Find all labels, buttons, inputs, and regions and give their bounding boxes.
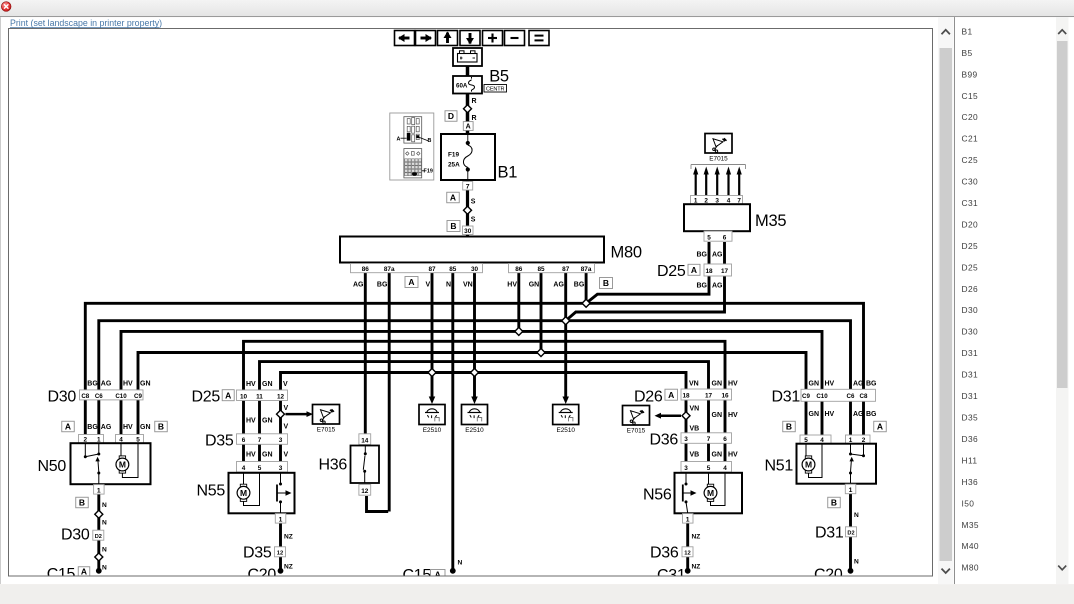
svg-text:V: V (284, 424, 289, 431)
svg-text:CENTR: CENTR (486, 87, 504, 93)
svg-text:A: A (668, 390, 674, 400)
svg-text:12: 12 (277, 551, 283, 557)
svg-text:V: V (284, 405, 289, 412)
svg-text:B99: B99 (962, 69, 978, 79)
svg-text:C8: C8 (860, 393, 868, 400)
svg-text:A: A (81, 567, 87, 577)
svg-text:25A: 25A (448, 162, 460, 169)
svg-text:HV: HV (123, 381, 133, 388)
svg-text:C25: C25 (962, 155, 979, 165)
svg-text:30: 30 (464, 228, 472, 235)
svg-text:3: 3 (684, 436, 688, 443)
svg-text:GN: GN (262, 452, 273, 459)
svg-text:VB: VB (690, 426, 700, 433)
svg-text:GN: GN (140, 424, 151, 431)
svg-text:30: 30 (471, 266, 479, 273)
svg-text:HV: HV (728, 412, 738, 419)
svg-text:B: B (786, 422, 792, 432)
svg-text:NZ: NZ (692, 564, 701, 571)
svg-text:AG: AG (353, 282, 364, 289)
svg-text:N50: N50 (38, 458, 67, 475)
svg-text:M80: M80 (962, 563, 980, 573)
svg-text:D35: D35 (205, 433, 234, 450)
svg-text:VN: VN (463, 282, 473, 289)
svg-text:BG: BG (87, 424, 98, 431)
svg-text:A: A (466, 124, 471, 131)
svg-text:B: B (79, 498, 85, 508)
svg-text:D30: D30 (48, 389, 77, 406)
svg-text:D26: D26 (962, 284, 979, 294)
svg-text:BG: BG (574, 282, 585, 289)
svg-text:VB: VB (690, 452, 700, 459)
svg-text:GN: GN (712, 452, 723, 459)
svg-text:18: 18 (705, 268, 713, 275)
svg-text:D36: D36 (650, 545, 679, 562)
svg-text:H11: H11 (962, 455, 978, 465)
svg-text:1: 1 (686, 516, 690, 523)
svg-text:A: A (225, 390, 231, 400)
svg-text:AG: AG (553, 282, 564, 289)
svg-text:VN: VN (690, 406, 700, 413)
svg-text:A: A (65, 422, 71, 432)
svg-text:4: 4 (242, 465, 246, 472)
svg-text:AG: AG (101, 381, 112, 388)
svg-text:5: 5 (258, 465, 262, 472)
svg-text:HV: HV (246, 452, 256, 459)
svg-text:D36: D36 (962, 434, 979, 444)
svg-text:N: N (446, 282, 451, 289)
svg-text:C15: C15 (962, 91, 979, 101)
svg-text:11: 11 (256, 393, 263, 400)
svg-text:BG: BG (377, 282, 388, 289)
svg-text:E7015: E7015 (317, 426, 336, 433)
svg-text:V: V (283, 381, 288, 388)
svg-text:HV: HV (728, 381, 738, 388)
svg-text:5: 5 (707, 235, 711, 242)
svg-text:C8: C8 (81, 393, 89, 400)
svg-text:D25: D25 (962, 241, 979, 251)
svg-text:C31: C31 (962, 198, 979, 208)
svg-text:C20: C20 (962, 112, 979, 122)
svg-text:M40: M40 (962, 541, 980, 551)
svg-text:HV: HV (123, 424, 133, 431)
svg-text:VN: VN (689, 381, 699, 388)
svg-text:N: N (458, 560, 463, 567)
svg-text:86: 86 (362, 266, 370, 273)
svg-text:HV: HV (825, 381, 835, 388)
svg-text:Print (set landscape in printe: Print (set landscape in printer property… (10, 18, 162, 28)
svg-text:E2510: E2510 (465, 427, 484, 434)
svg-text:GN: GN (140, 381, 151, 388)
svg-text:1: 1 (279, 516, 283, 523)
svg-text:5: 5 (707, 465, 711, 472)
svg-text:87a: 87a (581, 266, 592, 273)
svg-text:M35: M35 (962, 520, 980, 530)
svg-text:A: A (877, 422, 883, 432)
svg-text:C30: C30 (962, 177, 979, 187)
svg-text:N: N (854, 559, 859, 566)
svg-text:87a: 87a (384, 266, 395, 273)
svg-text:7: 7 (466, 184, 470, 191)
svg-text:N: N (102, 547, 107, 554)
svg-text:A: A (450, 193, 456, 203)
svg-text:GN: GN (262, 418, 273, 425)
svg-text:H36: H36 (962, 477, 979, 487)
svg-text:C10: C10 (115, 393, 127, 400)
svg-text:M35: M35 (755, 212, 786, 230)
svg-text:B1: B1 (498, 164, 518, 182)
svg-text:12: 12 (684, 551, 690, 557)
svg-text:BG: BG (87, 381, 98, 388)
svg-text:B: B (450, 221, 456, 231)
svg-text:7: 7 (707, 436, 711, 443)
svg-text:C6: C6 (95, 393, 103, 400)
svg-text:D35: D35 (962, 413, 979, 423)
svg-text:E7015: E7015 (627, 427, 646, 434)
svg-text:N51: N51 (765, 458, 794, 475)
svg-text:6: 6 (723, 436, 727, 443)
svg-text:10: 10 (240, 393, 248, 400)
svg-text:87: 87 (428, 266, 436, 273)
svg-text:BG: BG (866, 411, 877, 418)
svg-text:GN: GN (529, 282, 540, 289)
svg-text:D2: D2 (95, 534, 102, 540)
svg-text:B: B (428, 138, 432, 144)
svg-text:F19: F19 (424, 169, 433, 175)
svg-text:60A: 60A (456, 82, 468, 89)
svg-text:V: V (284, 452, 289, 459)
svg-text:D31: D31 (962, 348, 979, 358)
svg-text:7: 7 (258, 437, 262, 444)
svg-text:BG: BG (697, 283, 708, 290)
svg-text:B: B (831, 498, 837, 508)
svg-text:M: M (240, 488, 247, 498)
svg-text:E7015: E7015 (709, 155, 728, 162)
svg-text:6: 6 (242, 437, 246, 444)
svg-text:N: N (854, 512, 859, 519)
svg-text:18: 18 (682, 393, 690, 400)
svg-text:GN: GN (712, 381, 723, 388)
svg-text:HV: HV (825, 411, 835, 418)
svg-text:HV: HV (507, 282, 517, 289)
svg-text:A: A (408, 277, 414, 287)
svg-text:3: 3 (279, 437, 283, 444)
svg-text:B5: B5 (962, 48, 973, 58)
svg-text:S: S (471, 217, 476, 224)
svg-text:AG: AG (101, 424, 112, 431)
svg-text:S: S (471, 199, 476, 206)
svg-text:N: N (102, 520, 107, 527)
svg-text:HV: HV (246, 418, 256, 425)
svg-text:1: 1 (97, 487, 101, 494)
svg-text:4: 4 (723, 465, 727, 472)
svg-text:N56: N56 (643, 487, 672, 504)
svg-text:D30: D30 (962, 327, 979, 337)
svg-text:HV: HV (246, 381, 256, 388)
svg-text:BG: BG (697, 252, 708, 259)
svg-text:D31: D31 (815, 525, 844, 542)
svg-text:AG: AG (853, 411, 864, 418)
svg-text:14: 14 (361, 437, 369, 444)
svg-text:D30: D30 (61, 527, 90, 544)
svg-text:D25: D25 (192, 389, 221, 406)
svg-text:AG: AG (712, 252, 723, 259)
svg-text:M: M (805, 460, 812, 470)
svg-text:17: 17 (705, 393, 713, 400)
svg-text:V: V (426, 282, 431, 289)
svg-text:B5: B5 (489, 68, 509, 86)
svg-text:N: N (102, 502, 107, 509)
svg-text:C21: C21 (962, 134, 979, 144)
svg-text:D20: D20 (962, 219, 979, 229)
svg-text:I50: I50 (962, 498, 975, 508)
svg-text:GN: GN (712, 412, 723, 419)
svg-text:3: 3 (279, 465, 283, 472)
svg-text:B1: B1 (962, 26, 973, 36)
svg-text:C6: C6 (847, 393, 855, 400)
svg-text:85: 85 (537, 266, 545, 273)
svg-text:17: 17 (721, 268, 729, 275)
svg-text:6: 6 (723, 235, 727, 242)
svg-text:E2510: E2510 (556, 427, 575, 434)
svg-text:D31: D31 (962, 370, 979, 380)
svg-text:B: B (603, 278, 609, 288)
svg-text:F19: F19 (448, 152, 459, 159)
svg-text:3: 3 (684, 465, 688, 472)
svg-text:B: B (158, 422, 164, 432)
svg-text:H36: H36 (319, 457, 348, 474)
svg-text:AG: AG (853, 381, 864, 388)
svg-text:GN: GN (809, 411, 820, 418)
svg-text:D26: D26 (634, 389, 663, 406)
svg-text:HV: HV (728, 452, 738, 459)
svg-text:AG: AG (712, 283, 723, 290)
svg-text:D25: D25 (657, 263, 686, 280)
svg-text:C10: C10 (816, 393, 828, 400)
svg-text:R: R (472, 98, 477, 105)
svg-text:D31: D31 (772, 389, 801, 406)
svg-text:N: N (102, 565, 107, 572)
svg-text:C9: C9 (802, 393, 810, 400)
svg-text:E2510: E2510 (423, 427, 442, 434)
svg-text:1: 1 (849, 487, 853, 494)
svg-text:M: M (707, 488, 714, 498)
svg-text:NZ: NZ (284, 564, 293, 571)
svg-text:12: 12 (277, 393, 285, 400)
svg-text:D: D (448, 111, 454, 121)
svg-text:A: A (691, 265, 697, 275)
svg-text:D25: D25 (962, 262, 979, 272)
svg-text:M: M (119, 460, 126, 470)
svg-text:D30: D30 (962, 305, 979, 315)
svg-text:NZ: NZ (284, 534, 293, 541)
svg-text:85: 85 (449, 266, 457, 273)
svg-text:N55: N55 (197, 483, 226, 500)
svg-text:86: 86 (515, 266, 523, 273)
svg-text:D36: D36 (650, 432, 679, 449)
svg-text:D2: D2 (847, 531, 854, 537)
svg-text:87: 87 (562, 266, 570, 273)
svg-text:A: A (397, 136, 401, 142)
svg-text:C9: C9 (134, 393, 142, 400)
svg-text:12: 12 (361, 488, 369, 495)
svg-text:M80: M80 (611, 244, 642, 262)
svg-text:GN: GN (809, 381, 820, 388)
svg-text:BG: BG (866, 381, 877, 388)
svg-text:D35: D35 (243, 545, 272, 562)
svg-text:R: R (472, 115, 477, 122)
svg-text:GN: GN (262, 381, 273, 388)
svg-text:NZ: NZ (692, 534, 701, 541)
svg-text:16: 16 (721, 393, 729, 400)
svg-text:D31: D31 (962, 391, 979, 401)
